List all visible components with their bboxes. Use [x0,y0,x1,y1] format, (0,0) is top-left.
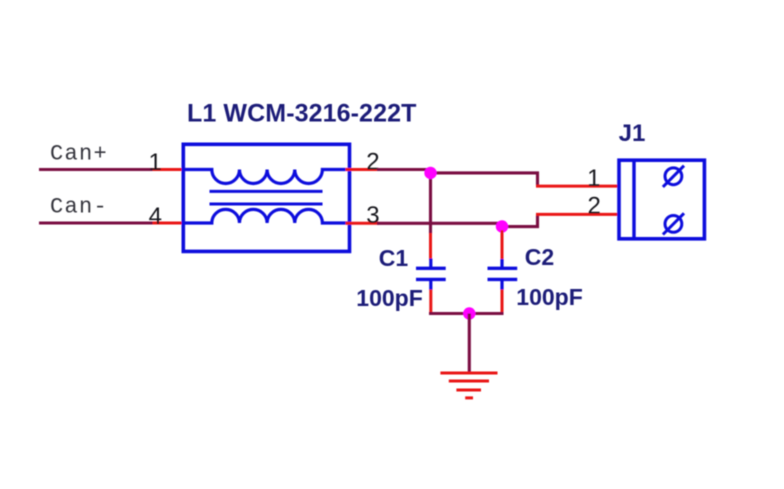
capacitor C1 top pin [429,233,432,260]
wire junction down to C1 [429,173,432,234]
connector J1 inner bar [632,161,635,238]
capacitor C1 bottom pin [429,290,432,315]
junction dot ground rail [463,307,475,319]
wire Can+ lead [39,168,154,171]
svg-text:Can-: Can- [50,194,108,219]
svg-text:C2: C2 [525,244,554,270]
capacitor C2 symbol [488,259,518,290]
capacitor C1 symbol [416,259,446,291]
L1 pin 1 stub [153,168,189,171]
wire pin2 to junction [377,168,431,171]
L1 pin 4 stub [153,222,189,225]
svg-text:L1 WCM-3216-222T: L1 WCM-3216-222T [187,99,416,127]
svg-text:100pF: 100pF [356,285,422,311]
J1 pin 2 stub [536,213,619,216]
svg-text:1: 1 [587,165,600,192]
svg-text:4: 4 [149,203,162,230]
J1 screw terminal 1 [663,166,684,187]
junction dot net1 / C1 tap [424,167,436,179]
J1 pin 1 stub [536,185,619,188]
J1 screw terminal 2 [663,213,684,234]
svg-text:2: 2 [587,192,600,219]
L1 core line upper [210,190,323,193]
wire to ground [468,314,471,373]
connector J1 body box [619,160,704,239]
svg-text:2: 2 [366,148,379,175]
L1 winding 1 (top, pins 1-2) [185,170,348,184]
wire junction to J1 step (net 2) [502,214,538,226]
ground symbol [440,373,497,398]
L1 pin 3 stub [346,222,380,225]
wire junction to J1 step (net 1) [431,173,538,186]
L1 pin 2 stub [346,168,380,171]
ground rail wire [429,312,504,315]
svg-text:100pF: 100pF [516,284,582,310]
wire Can- lead [39,221,154,224]
svg-text:Can+: Can+ [50,142,108,167]
L1 winding 2 (bottom, pins 4-3) [185,209,348,223]
junction dot net2 / C2 tap [496,220,508,232]
L1 core line lower [210,203,323,206]
svg-text:1: 1 [148,149,161,176]
svg-text:J1: J1 [619,120,646,147]
capacitor C2 top pin [501,230,504,261]
capacitor C2 bottom pin [501,290,504,315]
svg-text:C1: C1 [379,245,409,271]
wire pin3 to junction (net 2) [377,222,503,225]
inductor L1 body box [183,144,349,251]
